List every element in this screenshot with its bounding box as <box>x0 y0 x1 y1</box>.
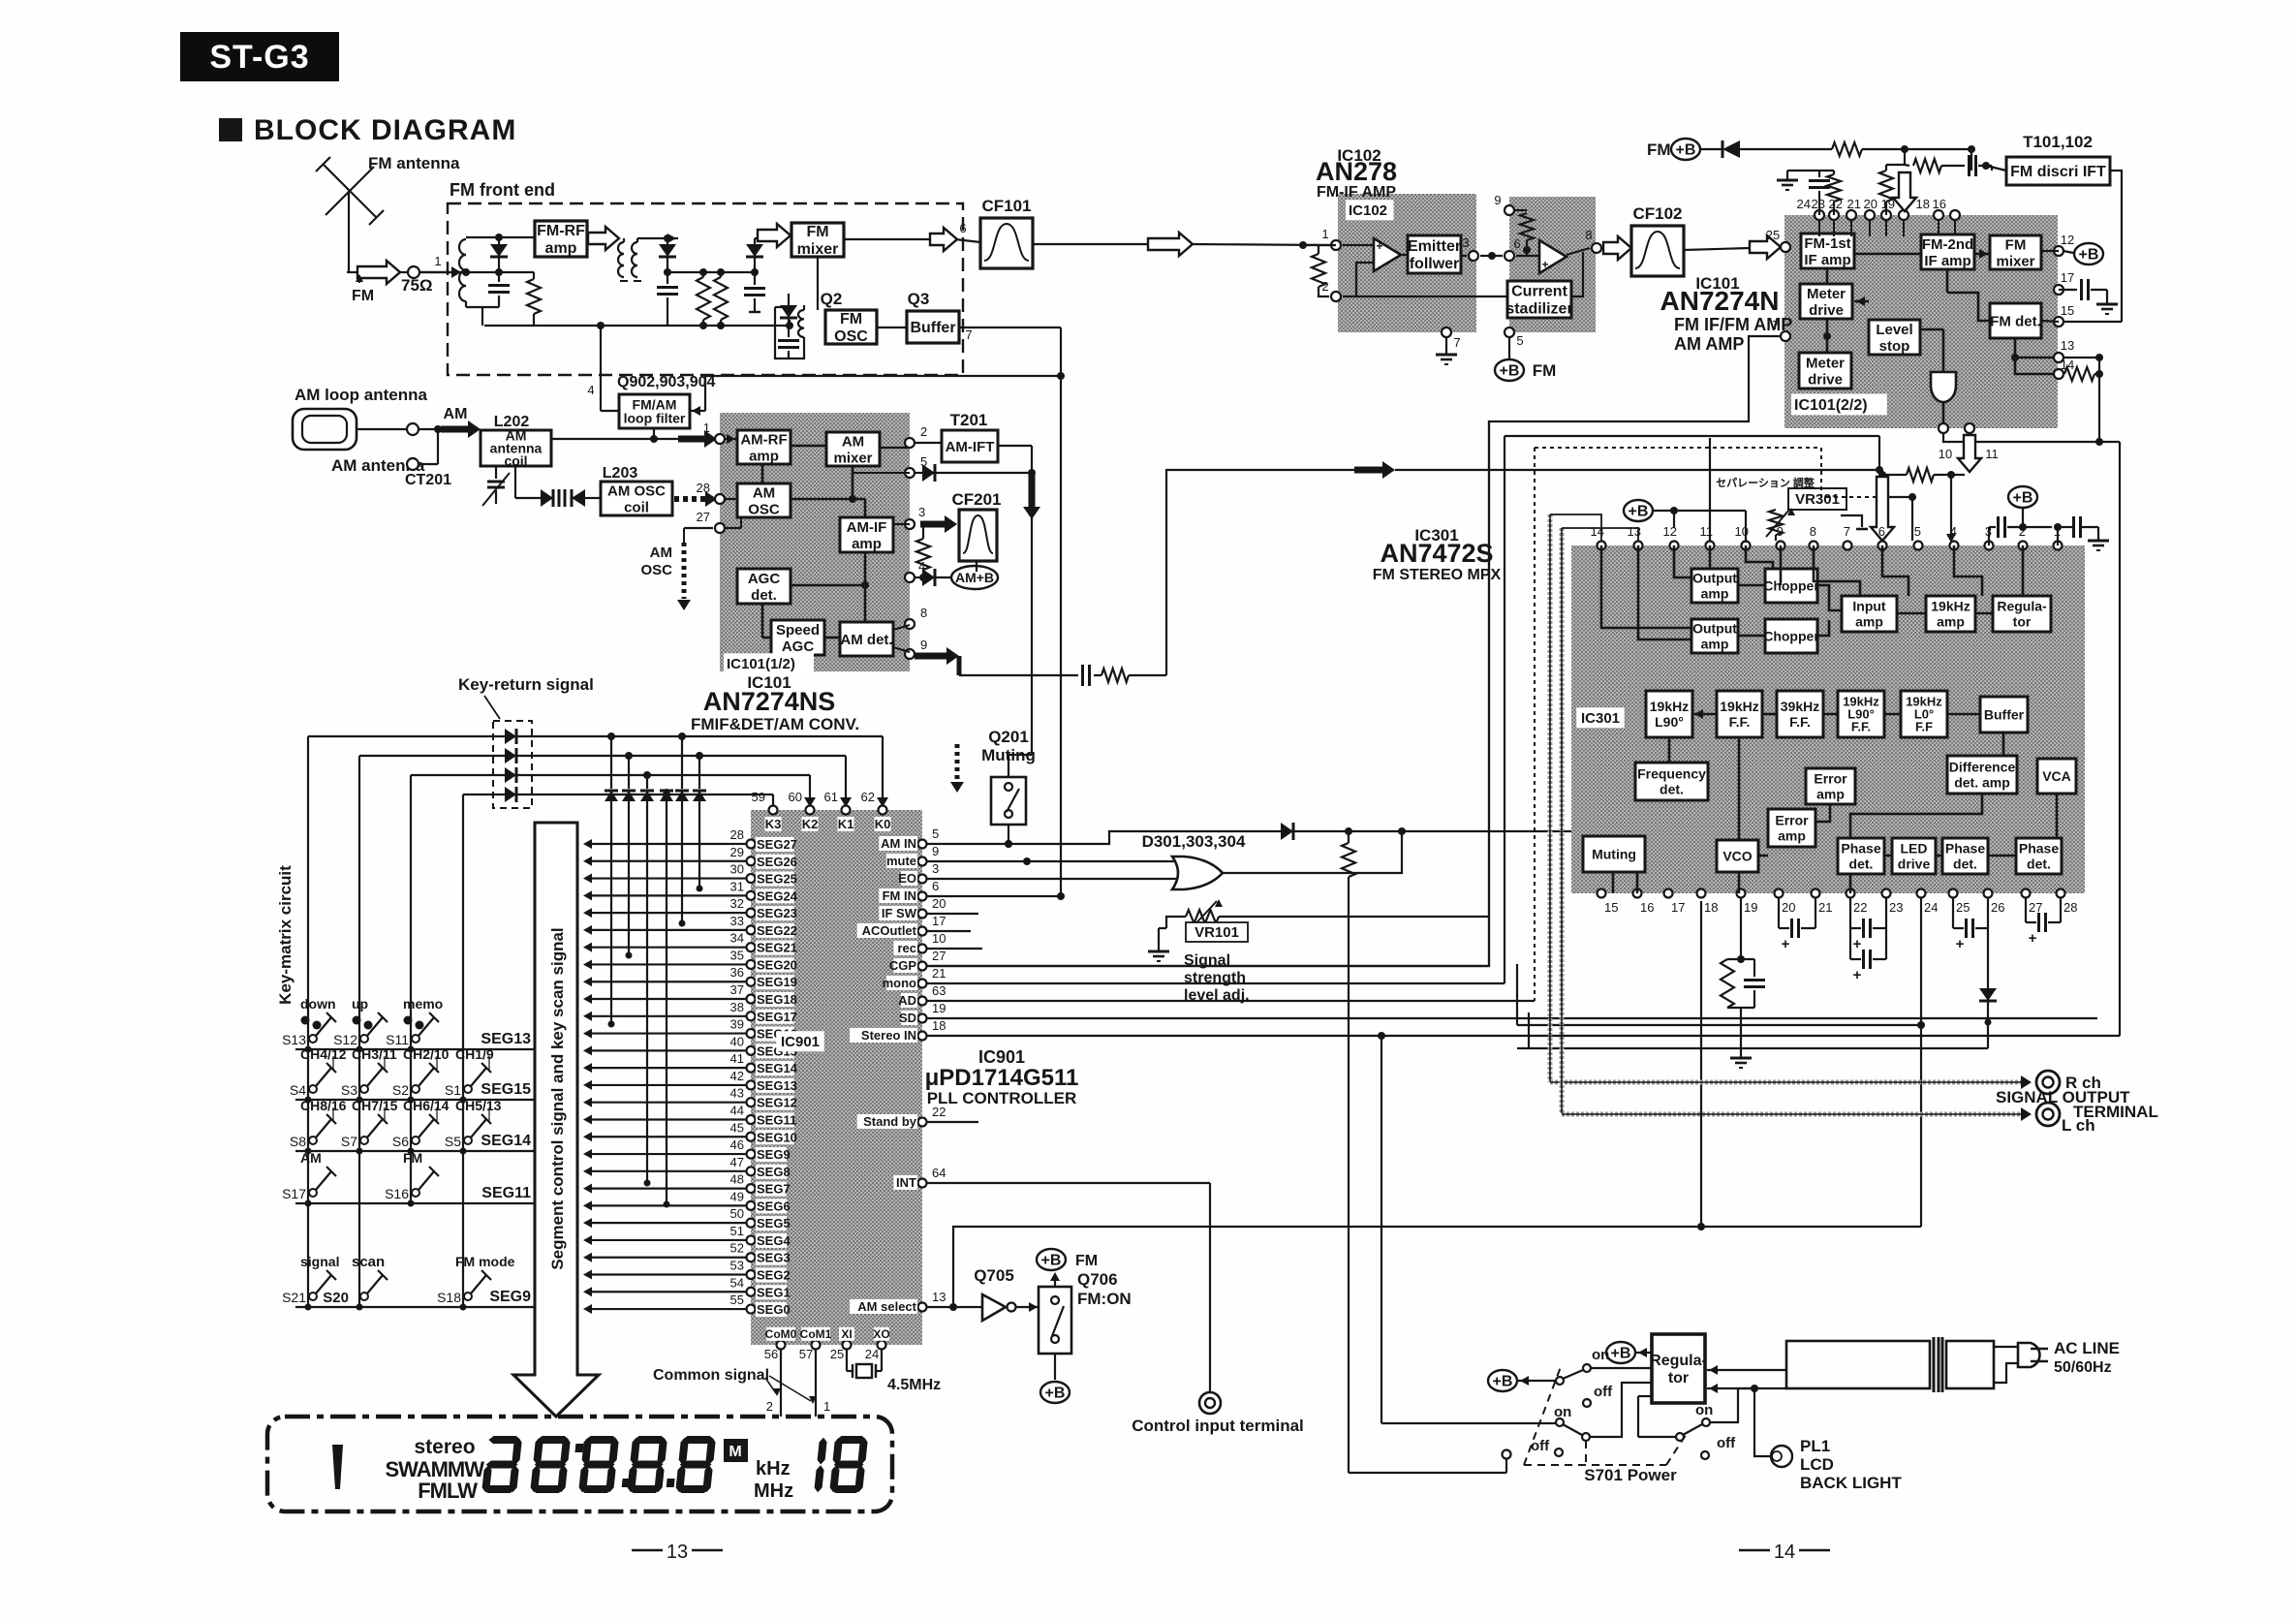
wire pin4 vertical <box>600 326 602 411</box>
block FM det <box>1990 303 2041 338</box>
FM front end dashed box <box>448 203 963 375</box>
svg-text:15: 15 <box>2061 303 2074 318</box>
switch Q201 muting <box>991 777 1026 825</box>
svg-text:AGC: AGC <box>748 571 781 587</box>
wire StereoIN long <box>927 1035 2120 1037</box>
wire rec stub <box>927 948 982 950</box>
svg-text:+B: +B <box>1493 1374 1513 1390</box>
tank2 mid node <box>667 271 755 273</box>
svg-text:AM: AM <box>300 1150 322 1166</box>
svg-text:amp: amp <box>545 240 577 257</box>
thick arrow AM <box>441 426 471 433</box>
top rail caps <box>1787 170 1834 171</box>
svg-text:7: 7 <box>1453 335 1460 350</box>
pin 3 IC102 <box>1461 255 1467 257</box>
wire a1-emitter <box>1401 254 1408 256</box>
svg-text:10: 10 <box>1939 447 1952 461</box>
IC901 right pins <box>850 826 946 1314</box>
svg-text:μPD1714G511: μPD1714G511 <box>925 1065 1079 1091</box>
svg-text:20: 20 <box>1782 900 1795 915</box>
svg-text:AM AMP: AM AMP <box>1674 334 1744 354</box>
svg-text:amp: amp <box>1855 613 1883 629</box>
matrix row lines <box>295 1048 535 1050</box>
svg-text:L203: L203 <box>603 465 638 482</box>
big arrow segment control <box>513 823 599 1417</box>
wire FM feed <box>347 271 358 273</box>
svg-text:mixer: mixer <box>1996 253 2034 269</box>
block Level stop <box>1869 320 1920 355</box>
svg-text:12: 12 <box>2061 233 2074 247</box>
resistor top FM+B <box>1832 142 1862 156</box>
svg-text:AM-IFT: AM-IFT <box>946 439 995 455</box>
svg-text:14: 14 <box>1774 1542 1795 1563</box>
svg-text:S13: S13 <box>282 1032 306 1047</box>
svg-text:S12: S12 <box>333 1032 357 1047</box>
svg-text:coil: coil <box>624 499 649 515</box>
svg-text:Q902,903,904: Q902,903,904 <box>617 374 716 390</box>
svg-text:59: 59 <box>752 790 765 804</box>
block FM AM loop filter <box>619 394 690 428</box>
LCD signal bar <box>332 1445 343 1489</box>
IC301 top pins <box>1591 524 2063 550</box>
svg-text:drive: drive <box>1808 371 1843 388</box>
svg-text:3: 3 <box>918 505 925 519</box>
svg-text:41: 41 <box>730 1051 744 1066</box>
bottom caps 20 21 <box>1778 898 1780 928</box>
svg-text:S1: S1 <box>445 1082 461 1098</box>
svg-text:AN7274NS: AN7274NS <box>703 687 836 716</box>
row2 dots <box>305 1097 312 1104</box>
svg-text:Q706: Q706 <box>1077 1270 1118 1289</box>
resistor R front1 <box>533 272 535 279</box>
tank2 cap <box>664 268 671 276</box>
IC102 white tag <box>1346 200 1394 220</box>
svg-text:on: on <box>1592 1347 1609 1363</box>
wire INT <box>927 1182 1210 1184</box>
svg-text:9: 9 <box>920 638 927 652</box>
bottom caps 25 26 <box>1952 898 1954 928</box>
switch Q706 <box>1039 1287 1071 1354</box>
pin 5 am <box>905 468 915 478</box>
block 19kHz amp <box>1926 596 1975 632</box>
svg-text:Meter: Meter <box>1807 286 1846 302</box>
svg-text:stereo: stereo <box>414 1436 475 1458</box>
tank1 bottom <box>465 301 467 307</box>
svg-text:64: 64 <box>932 1166 946 1180</box>
svg-text:SEG24: SEG24 <box>757 888 798 903</box>
svg-text:amp: amp <box>852 536 882 552</box>
IC101 top pins 24-16 <box>1797 197 1960 220</box>
svg-text:7: 7 <box>1772 318 1779 332</box>
svg-text:SEG20: SEG20 <box>757 957 797 972</box>
wire stereo to switch <box>1381 1036 1382 1423</box>
block CF101 <box>980 218 1033 268</box>
svg-text:62: 62 <box>861 790 875 804</box>
svg-text:Emitter: Emitter <box>1408 238 1461 255</box>
svg-text:IC102: IC102 <box>1349 202 1387 219</box>
page number 13 <box>632 1549 663 1552</box>
pin 8 IC102 <box>1592 243 1601 253</box>
svg-text:Level: Level <box>1876 322 1912 338</box>
svg-text:55: 55 <box>730 1293 744 1307</box>
block Emitter follwer <box>1408 235 1461 273</box>
svg-text:40: 40 <box>730 1034 744 1048</box>
row1 dots <box>305 1046 312 1053</box>
svg-text:+B: +B <box>1611 1346 1631 1362</box>
svg-text:13: 13 <box>2061 338 2074 353</box>
+B below Q706 <box>1054 1354 1056 1380</box>
AM loop antenna <box>293 409 357 450</box>
svg-text:CGP: CGP <box>889 958 917 973</box>
pin 8 am <box>905 619 915 629</box>
svg-text:Input: Input <box>1852 598 1886 613</box>
wire gate out <box>1223 835 1402 873</box>
shield wire L <box>1560 528 1565 1114</box>
svg-text:SEG13: SEG13 <box>481 1031 531 1047</box>
svg-text:FM STEREO MPX: FM STEREO MPX <box>1373 567 1502 583</box>
pin 3 am <box>905 519 915 529</box>
svg-text:6: 6 <box>1513 236 1520 251</box>
svg-text:+B: +B <box>2013 490 2033 507</box>
FM antenna symbol <box>316 157 384 272</box>
svg-text:SEG2: SEG2 <box>757 1268 791 1283</box>
svg-text:SEG21: SEG21 <box>757 941 797 955</box>
svg-text:1: 1 <box>703 421 710 435</box>
svg-text:FM-IF AMP: FM-IF AMP <box>1317 184 1396 201</box>
svg-text:XO: XO <box>873 1327 889 1341</box>
svg-text:21: 21 <box>932 966 946 981</box>
svg-text:FM:ON: FM:ON <box>1077 1290 1132 1308</box>
S701 dashed <box>1524 1464 1666 1466</box>
pin 14 resistor <box>2054 369 2063 379</box>
IC901 K pins <box>769 806 778 815</box>
svg-text:SEG6: SEG6 <box>757 1199 791 1213</box>
svg-text:Segment control signal and key: Segment control signal and key scan sign… <box>548 927 567 1269</box>
svg-text:39: 39 <box>730 1017 744 1032</box>
svg-text:AM: AM <box>444 406 468 422</box>
svg-text:det.: det. <box>1953 856 1977 871</box>
svg-text:F.F.: F.F. <box>1729 714 1751 730</box>
wire CF102 out <box>1684 248 1750 250</box>
svg-text:CoM1: CoM1 <box>800 1327 832 1341</box>
svg-text:off: off <box>1531 1438 1550 1454</box>
svg-text:drive: drive <box>1898 856 1931 871</box>
svg-text:Q201: Q201 <box>988 728 1029 746</box>
svg-text:T101,102: T101,102 <box>2023 133 2093 151</box>
row2 switches <box>290 1046 347 1098</box>
svg-text:17: 17 <box>2061 270 2074 285</box>
cap to discri <box>1961 165 1965 167</box>
svg-text:SEG14: SEG14 <box>757 1061 798 1075</box>
svg-text:28: 28 <box>697 481 710 495</box>
pin 1 am <box>715 434 725 444</box>
svg-text:det.: det. <box>1660 781 1684 796</box>
svg-text:down: down <box>300 996 336 1012</box>
svg-text:S8: S8 <box>290 1134 306 1149</box>
wire buffer down <box>1060 327 1062 896</box>
resistor below gate <box>1345 827 1352 835</box>
svg-text:Stereo IN: Stereo IN <box>861 1028 916 1043</box>
svg-text:SEG10: SEG10 <box>757 1130 797 1144</box>
svg-text:L90°: L90° <box>1655 714 1684 730</box>
terminal circle AM1 <box>407 423 419 435</box>
svg-text:19kHz: 19kHz <box>1931 598 1970 613</box>
svg-text:CH4/12: CH4/12 <box>300 1046 347 1062</box>
svg-text:loop filter: loop filter <box>624 410 686 425</box>
wire xfmr to reg bottom <box>1707 1387 1786 1389</box>
svg-text:AC LINE: AC LINE <box>2054 1339 2120 1357</box>
svg-text:17: 17 <box>1671 900 1685 915</box>
IC101 gray block <box>1784 215 2058 428</box>
IC301 bottom pins <box>1598 889 2078 916</box>
svg-text:16: 16 <box>1933 197 1946 211</box>
svg-text:18: 18 <box>1704 900 1718 915</box>
wire buffer out <box>959 327 1061 328</box>
wires top pins into IC <box>1818 220 1820 236</box>
pin 2 am <box>905 438 915 448</box>
svg-text:CH6/14: CH6/14 <box>403 1098 450 1113</box>
svg-text:4.5MHz: 4.5MHz <box>887 1377 941 1393</box>
hollow arrow after FM-RF <box>588 227 619 250</box>
lamp PL1 <box>1753 1388 1755 1443</box>
svg-text:24: 24 <box>1924 900 1938 915</box>
IC901 SEG labels <box>756 837 798 1317</box>
svg-text:off: off <box>1594 1384 1613 1400</box>
svg-text:SEG7: SEG7 <box>757 1182 791 1197</box>
AND gate stem <box>1942 402 1945 428</box>
svg-text:Key-matrix circuit: Key-matrix circuit <box>276 865 295 1005</box>
svg-text:T201: T201 <box>950 411 988 429</box>
svg-text:K2: K2 <box>802 817 819 831</box>
loop filter bottom stub <box>653 428 655 439</box>
crystal 4.5MHz <box>846 1349 848 1371</box>
svg-text:26: 26 <box>1991 900 2004 915</box>
svg-text:IF amp: IF amp <box>1804 252 1850 268</box>
wire standby stub <box>927 1121 978 1123</box>
svg-text:FM IN: FM IN <box>883 888 916 903</box>
svg-text:FM: FM <box>1533 361 1557 380</box>
block AM OSC coil <box>601 482 672 515</box>
LCD colon dots <box>574 1444 583 1452</box>
svg-text:SEG9: SEG9 <box>757 1147 791 1162</box>
svg-text:VR301: VR301 <box>1795 491 1840 508</box>
svg-text:Regula-: Regula- <box>1997 598 2047 613</box>
resistor R front3 <box>714 277 728 320</box>
svg-text:off: off <box>1717 1435 1736 1451</box>
pin19 RC network <box>1740 898 1742 959</box>
wire AM IN route <box>927 831 1281 844</box>
svg-text:SD: SD <box>899 1011 916 1025</box>
block AM OSC <box>737 483 791 517</box>
svg-text:tor: tor <box>1668 1370 1689 1386</box>
switch S701c <box>1702 1418 1710 1426</box>
svg-text:follwer: follwer <box>1410 256 1460 272</box>
switch S701a <box>1583 1364 1591 1372</box>
svg-text:PLL CONTROLLER: PLL CONTROLLER <box>927 1089 1077 1107</box>
svg-text:+: + <box>1376 239 1382 253</box>
svg-text:56: 56 <box>764 1347 778 1361</box>
svg-text:FM discri IFT: FM discri IFT <box>2010 164 2106 180</box>
jack R ch <box>2036 1071 2060 1094</box>
wire y453 to pin1 <box>551 438 678 440</box>
row3 switches <box>290 1098 347 1149</box>
svg-text:mixer: mixer <box>797 241 839 258</box>
block AM-RF amp <box>737 430 791 464</box>
circle off stub <box>1503 1450 1511 1459</box>
svg-text:det.: det. <box>1849 856 1874 871</box>
svg-text:19: 19 <box>932 1001 946 1015</box>
block Output amp 1 <box>1691 569 1738 603</box>
block AM det <box>840 622 893 656</box>
block AGC det <box>737 569 791 604</box>
svg-text:25: 25 <box>1956 900 1970 915</box>
AC plug <box>2018 1343 2039 1367</box>
hollow arrow into pin6 <box>1881 470 1883 477</box>
svg-text:IC301: IC301 <box>1581 710 1620 727</box>
tank1 top node <box>466 236 535 238</box>
block AM mixer <box>826 432 880 466</box>
key-return dashed box <box>493 721 532 808</box>
svg-text:stop: stop <box>1879 338 1910 355</box>
svg-text:30: 30 <box>730 862 744 877</box>
svg-text:+: + <box>1782 936 1790 952</box>
diode FM+B <box>1701 148 1722 150</box>
FM OSC coil <box>798 310 804 337</box>
svg-text:on: on <box>1554 1404 1571 1420</box>
nest vertical 1553 <box>1504 436 1505 983</box>
svg-text:21: 21 <box>1847 197 1861 211</box>
svg-text:+B: +B <box>1676 142 1696 159</box>
svg-text:+: + <box>1853 936 1862 952</box>
svg-text:CH8/16: CH8/16 <box>300 1098 347 1113</box>
svg-text:9: 9 <box>932 844 939 858</box>
+B left psu <box>1488 1370 1517 1391</box>
svg-text:+: + <box>1541 258 1548 271</box>
+B FM Q706 <box>1054 1275 1056 1287</box>
svg-text:FM-2nd: FM-2nd <box>1922 236 1973 253</box>
svg-text:6: 6 <box>932 879 939 893</box>
svg-text:F.F.: F.F. <box>1851 720 1871 734</box>
IC101(1/2) tag <box>724 653 814 673</box>
IC301 tag <box>1576 707 1625 728</box>
wire 3-6 <box>1480 255 1503 257</box>
svg-text:SEG11: SEG11 <box>481 1185 531 1201</box>
svg-text:Current: Current <box>1511 284 1567 300</box>
svg-text:11: 11 <box>1700 524 1714 539</box>
svg-text:5: 5 <box>1516 333 1523 348</box>
svg-text:AM: AM <box>753 484 775 501</box>
svg-text:21: 21 <box>1818 900 1832 915</box>
block Error amp 1 <box>1806 768 1855 804</box>
matrix cell separators <box>332 1056 334 1070</box>
svg-text:18: 18 <box>932 1018 946 1033</box>
block Output amp 2 <box>1691 619 1738 653</box>
wire pin9 out <box>915 653 922 655</box>
svg-text:Stand by: Stand by <box>863 1114 917 1129</box>
VR101 label <box>1186 922 1248 942</box>
svg-text:VCA: VCA <box>2042 768 2071 784</box>
svg-text:25: 25 <box>1766 228 1780 242</box>
svg-text:F.F: F.F <box>1915 720 1933 734</box>
svg-text:AM-RF: AM-RF <box>740 431 787 448</box>
svg-text:SEG15: SEG15 <box>481 1081 531 1098</box>
op-amp A2 IC102 <box>1539 240 1567 273</box>
transformer T front <box>618 242 624 277</box>
svg-text:Q2: Q2 <box>821 290 843 308</box>
svg-text:5: 5 <box>932 826 939 841</box>
svg-text:INT: INT <box>896 1175 916 1190</box>
bottom route 2 <box>1517 1047 1988 1049</box>
pin 15 <box>2054 317 2063 327</box>
svg-text:31: 31 <box>730 879 744 893</box>
pin 2 IC102 <box>1331 292 1341 301</box>
block 19kHz L90 FF <box>1838 691 1884 737</box>
hollow arrow to CF102 <box>1603 236 1631 260</box>
svg-text:Common signal: Common signal <box>653 1367 769 1384</box>
wire FM IN <box>927 895 1061 897</box>
svg-text:11: 11 <box>1985 447 1999 461</box>
op-amp A1 IC102 <box>1374 238 1401 271</box>
svg-text:CH2/10: CH2/10 <box>403 1046 450 1062</box>
diode below 26 <box>1987 928 1989 988</box>
svg-text:L ch: L ch <box>2062 1116 2095 1135</box>
pin 7 IC101 <box>1781 331 1790 341</box>
svg-text:Signal: Signal <box>1184 952 1230 969</box>
block FM-1st IF amp <box>1801 234 1854 268</box>
svg-text:S21: S21 <box>282 1290 306 1305</box>
hollow arrow to pin25 <box>1750 235 1781 259</box>
pin 13 <box>2054 353 2063 362</box>
shield wire R <box>1548 514 1553 1082</box>
block Chopper 1 <box>1763 569 1819 603</box>
resistor R front2 <box>697 277 710 320</box>
thick arrow down T201 <box>1029 475 1036 508</box>
svg-text:Key-return signal: Key-return signal <box>458 675 594 694</box>
svg-text:OSC: OSC <box>748 501 780 517</box>
svg-text:61: 61 <box>824 790 838 804</box>
svg-text:AM select: AM select <box>857 1299 916 1314</box>
switch S701b <box>1556 1418 1564 1426</box>
wire AD long <box>927 1000 1535 1002</box>
svg-text:8: 8 <box>920 606 927 620</box>
bottom caps 22 23 <box>1849 898 1851 928</box>
svg-text:FM: FM <box>352 288 374 304</box>
tank1 mid node <box>419 271 534 273</box>
svg-text:Q705: Q705 <box>974 1266 1014 1285</box>
pin 17 cap <box>2054 285 2063 295</box>
inverter Q705 <box>982 1294 1006 1321</box>
svg-text:1: 1 <box>434 254 441 268</box>
block 39kHz FF <box>1777 691 1823 737</box>
wire s701c pivot <box>1638 1436 1676 1438</box>
svg-text:M: M <box>729 1444 741 1460</box>
svg-text:AM det.: AM det. <box>840 632 892 648</box>
svg-text:strength: strength <box>1184 970 1246 986</box>
FM OSC tank loop <box>775 307 804 358</box>
svg-text:BACK LIGHT: BACK LIGHT <box>1800 1474 1902 1492</box>
row5 dots <box>305 1304 312 1311</box>
svg-text:+: + <box>1956 936 1965 952</box>
block FM mixer <box>791 223 844 258</box>
IC301 gray block <box>1571 545 2085 893</box>
svg-text:Phase: Phase <box>1945 840 1985 856</box>
svg-text:CT201: CT201 <box>405 472 451 488</box>
tank1 coil <box>459 239 466 301</box>
tank3 varactor D <box>754 238 756 244</box>
svg-text:IF amp: IF amp <box>1924 253 1970 269</box>
svg-text:IC101(1/2): IC101(1/2) <box>727 656 795 672</box>
svg-text:F.F.: F.F. <box>1789 714 1811 730</box>
